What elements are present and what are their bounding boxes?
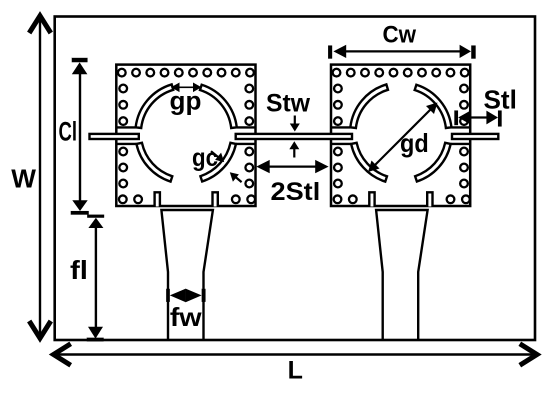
- svg-text:2Stl: 2Stl: [271, 178, 321, 206]
- fl dimension arrow (feed length): [87, 215, 104, 342]
- substrate outline rectangle: [55, 17, 535, 341]
- svg-text:Cw: Cw: [383, 22, 417, 49]
- gd dimension arrow (ring inner diameter, diagonal): [368, 103, 438, 173]
- gc label: [192, 144, 218, 172]
- svg-text:Cl: Cl: [59, 116, 78, 146]
- svg-text:gp: gp: [170, 86, 202, 116]
- left split-ring circular slot: [136, 84, 237, 181]
- Stl dimension arrow (stub length): [454, 111, 501, 127]
- right patch slot-channel cap lines: [331, 127, 470, 143]
- 2Stl dimension arrow (inter-cell strip length): [256, 160, 328, 173]
- gc arrows (ring slot width): [211, 151, 242, 182]
- fw label: [170, 302, 203, 332]
- svg-text:fw: fw: [170, 302, 203, 332]
- gp label: [170, 86, 202, 116]
- gd label: [400, 128, 429, 158]
- W dimension arrow (substrate height): [29, 16, 51, 338]
- Stw dimension arrows (strip width): [289, 116, 300, 158]
- fw dimension arrows (feed width): [166, 289, 205, 303]
- right outer stub strip: [452, 134, 498, 139]
- Stw label: [266, 90, 311, 118]
- Stl label: [484, 84, 517, 114]
- fl label: [70, 255, 88, 285]
- svg-text:gc: gc: [192, 144, 218, 172]
- L dimension arrow (substrate length): [54, 344, 538, 366]
- svg-text:Stl: Stl: [484, 84, 517, 114]
- svg-text:Stw: Stw: [266, 90, 311, 118]
- svg-text:fl: fl: [70, 255, 88, 285]
- Cl dimension arrow (cell length): [71, 58, 89, 215]
- right patch bottom edge notches: [369, 192, 432, 206]
- left tapered microstrip feed line: [161, 210, 213, 341]
- right tapered microstrip feed line: [376, 210, 428, 341]
- W label: [11, 163, 36, 193]
- Cw dimension arrow (cell width): [328, 45, 475, 59]
- left patch bottom edge notches: [155, 192, 218, 206]
- left patch slot-channel cap lines: [116, 127, 255, 143]
- right split-ring circular slot: [350, 84, 451, 181]
- left mushroom cell patch outline: [116, 65, 255, 206]
- svg-text:W: W: [11, 163, 36, 193]
- right patch via holes: [333, 69, 470, 203]
- Cl label: [59, 116, 78, 146]
- svg-text:gd: gd: [400, 128, 429, 158]
- middle connecting strip (2Stl): [236, 134, 352, 139]
- Cw label: [383, 22, 417, 49]
- right mushroom cell patch outline: [331, 65, 470, 206]
- L label: [288, 357, 303, 385]
- 2Stl label: [271, 178, 321, 206]
- gp dimension arrows (ring top gap): [171, 83, 202, 93]
- svg-text:L: L: [288, 357, 303, 385]
- left outer stub strip: [90, 134, 139, 139]
- left patch via holes: [118, 69, 255, 203]
